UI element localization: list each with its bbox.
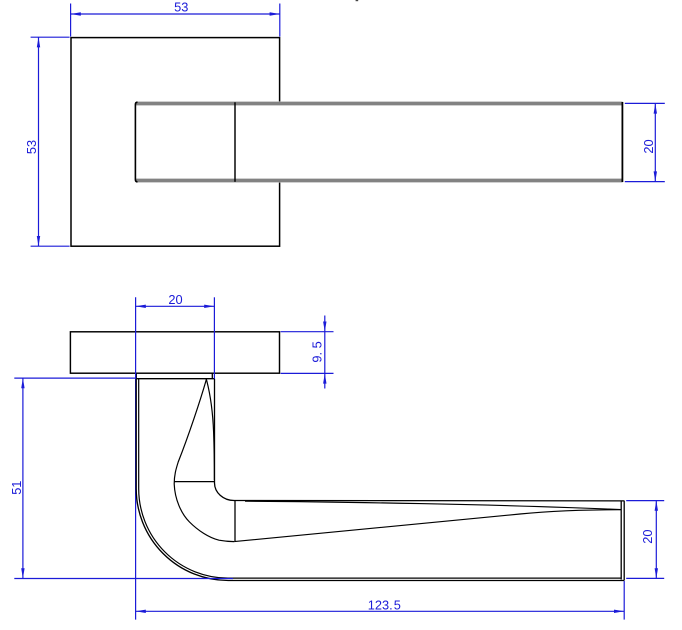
dimension 9.5 extension lines <box>281 331 334 333</box>
handle neck outer edge + outer bottom line <box>136 379 624 581</box>
svg-text:123.5: 123.5 <box>368 597 401 612</box>
neck flange right tick <box>211 373 213 379</box>
lever bottom edge (thick gray) <box>136 179 623 183</box>
lever neck division line <box>234 102 236 182</box>
neck flange left tick <box>135 373 137 379</box>
dimension 51 extension lines <box>14 377 136 379</box>
lever body mask (hides rose edge behind lever) <box>135 101 624 182</box>
dimension 20 (top view) dimension line <box>654 103 656 181</box>
neck right edge with fillet to grip top <box>215 379 235 501</box>
lever left end cap <box>135 102 137 182</box>
grip twist silhouette upper <box>245 501 621 509</box>
horizontal tangent line in bend <box>174 481 214 483</box>
dimension 20 (top view lever width) extension lines <box>625 102 665 104</box>
dimension 20 (grip) dimension line <box>655 501 657 579</box>
inner neck S-curve silhouette <box>174 379 234 542</box>
svg-text:20: 20 <box>168 292 182 307</box>
grip right end cap inner <box>620 501 622 580</box>
dimension 51 dimension line <box>22 378 24 578</box>
dimension 53 (left, height) extension lines <box>31 36 70 38</box>
square rose (front view) <box>71 38 280 247</box>
lever top edge (thick gray) <box>136 102 623 106</box>
rose side view rectangle <box>70 332 279 373</box>
svg-text:53: 53 <box>174 0 188 15</box>
top edge artifact dot <box>356 0 359 1</box>
dimension 20 (neck) dimension line <box>136 305 215 307</box>
grip right end cap outer <box>623 501 625 581</box>
20 neck extension line left (also 123.5 left extension) <box>135 297 137 619</box>
123.5 right extension line <box>623 581 625 620</box>
grip twist silhouette lower <box>234 510 621 542</box>
handle neck inner edge + upper bottom line <box>139 379 622 578</box>
grip division line <box>234 501 236 542</box>
dimension 123.5 dimension line <box>136 610 625 612</box>
20 neck extension line right <box>213 297 215 379</box>
grip top edge <box>234 500 624 502</box>
svg-text:51: 51 <box>9 481 24 495</box>
svg-text:20: 20 <box>641 139 656 153</box>
dimension 53 (top) dimension line <box>71 13 280 15</box>
svg-text:9. 5: 9. 5 <box>310 341 325 362</box>
dimension 20 (grip height) extension lines <box>626 500 664 502</box>
dimension 9.5 dimension line (arrows outside) <box>324 316 326 389</box>
neck flange bottom line <box>136 378 214 380</box>
dimension 53 (top, width) extension lines <box>70 4 72 37</box>
dimension 53 (left) dimension line <box>38 37 40 246</box>
steep neck curve silhouette <box>206 379 214 480</box>
lever right end cap <box>621 102 623 182</box>
svg-text:53: 53 <box>24 140 39 154</box>
svg-text:20: 20 <box>640 529 655 543</box>
